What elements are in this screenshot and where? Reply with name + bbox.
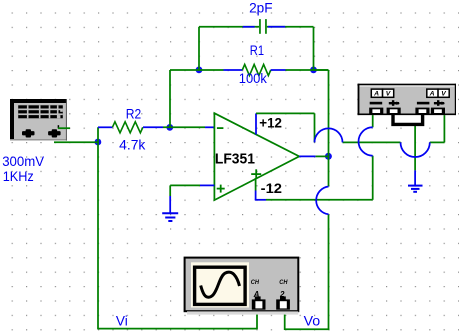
wire hop: meter left wire over +12 rail <box>359 127 373 155</box>
wire: non-inverting input to ground <box>170 185 214 213</box>
node: junction output Vo <box>325 153 332 160</box>
svg-text:R2: R2 <box>126 105 142 121</box>
svg-text:Vi: Vi <box>116 312 128 328</box>
ground (op-amp + input) <box>162 213 178 221</box>
wire: Vi vertical rail <box>97 127 99 328</box>
node: junction feedback right <box>310 67 317 74</box>
wire: R2 to op-amp inverting input <box>163 126 214 128</box>
svg-text:A: A <box>253 290 260 299</box>
node: junction R2 / inverting input <box>166 124 173 131</box>
wire: V- rail to meter <box>266 199 373 201</box>
wire: feedback left vertical <box>169 70 171 128</box>
wire hop: +12 rail over Vo vertical <box>315 128 343 142</box>
svg-text:A: A <box>373 91 379 98</box>
wire: Vo vertical below hop <box>328 214 330 329</box>
op-amp U1 LF351 <box>214 113 299 200</box>
svg-text:A: A <box>429 91 435 98</box>
svg-text:4.7k: 4.7k <box>119 137 146 153</box>
wire hop: Vo vertical over V- rail <box>316 187 328 215</box>
node: junction Vi <box>95 139 102 146</box>
wire: op-amp output <box>299 155 328 157</box>
wire: FG output to node Vi <box>54 141 98 143</box>
svg-text:LF351: LF351 <box>215 151 255 168</box>
wire: Vo bottom rail <box>285 328 330 330</box>
wire: V+ supply stub <box>256 113 315 142</box>
svg-text:1KHz: 1KHz <box>3 168 34 184</box>
wire: FG unused + stub <box>58 125 70 128</box>
wire: scope channel B drop <box>284 310 286 331</box>
capacitor C1 2pF <box>199 19 314 70</box>
resistor R2 4.7k <box>98 122 163 133</box>
svg-text:100k: 100k <box>239 70 268 86</box>
ground (meter common) <box>408 186 423 192</box>
svg-text:CH: CH <box>251 279 259 286</box>
node: junction feedback left <box>196 67 203 74</box>
svg-text:R1: R1 <box>250 42 264 58</box>
wire: +12 rail to meter right terminal <box>343 114 445 143</box>
wire: meter left terminal down <box>372 114 374 200</box>
svg-text:300mV: 300mV <box>2 153 45 169</box>
svg-text:+12: +12 <box>259 114 282 130</box>
resistor R1 100k <box>224 64 329 75</box>
wire: feedback right elbow to output <box>314 70 329 187</box>
function generator XFG1 <box>10 99 67 141</box>
wire: meter common link (thick) <box>393 114 423 124</box>
measurement meters M1 (A/V pairs) <box>358 84 456 115</box>
wire: scope channel A drop <box>256 310 258 330</box>
wire: feedback top horizontal <box>170 69 224 71</box>
wire: Vi bottom rail <box>97 328 257 330</box>
svg-text:-12: -12 <box>261 180 283 196</box>
wire: V- supply stub <box>255 178 266 200</box>
svg-text:Vo: Vo <box>304 312 321 328</box>
svg-text:2pF: 2pF <box>249 0 273 16</box>
oscilloscope XSC1 <box>185 258 299 315</box>
wire hop: +12 rail under ground drop <box>401 142 430 157</box>
wire: meter common to ground <box>414 125 416 186</box>
svg-text:CH: CH <box>279 279 287 286</box>
